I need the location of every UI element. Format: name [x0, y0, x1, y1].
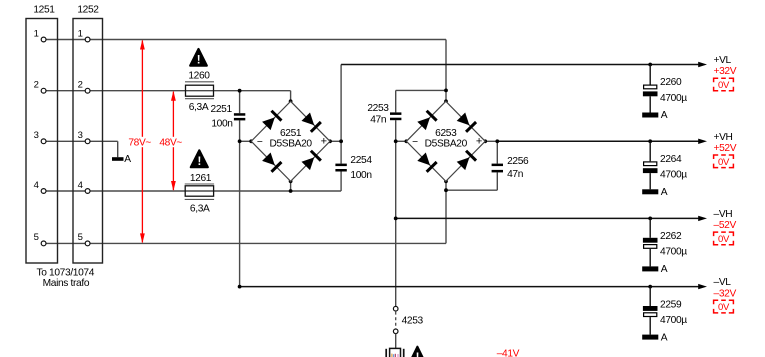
standby voltage 0V box at &#8211;VL: [714, 300, 734, 313]
svg-text:+VH: +VH: [714, 132, 733, 143]
svg-text:6,3A: 6,3A: [189, 102, 209, 113]
wire +VH rail: [497, 140, 699, 142]
svg-text:2264: 2264: [660, 154, 682, 165]
svg-text:2: 2: [78, 80, 83, 91]
78V~ measure arrow shaft: [141, 41, 143, 243]
wire bridge 6251 bottom vertex stem to pin4 row: [290, 181, 292, 191]
capacitor 2253: [390, 112, 401, 115]
bridge 6253 diode bottom-right: [457, 157, 470, 170]
svg-text:4700µ: 4700µ: [660, 93, 687, 104]
junction bridge 6253 left vertex: [405, 139, 409, 143]
connector block below 4253 (clipped at image bottom): [390, 348, 401, 357]
connector 1251 pin 1 circle: [41, 37, 46, 42]
svg-text:A: A: [661, 264, 668, 275]
wire vertical x446 pin5 up to bridge 6253 bottom: [445, 181, 447, 243]
junction cap2262/-VH rail: [648, 217, 652, 221]
svg-text:0V: 0V: [718, 234, 730, 245]
svg-text:A: A: [661, 110, 668, 121]
wire pin2 row through fuse 1260: [44, 90, 291, 92]
svg-text:6253: 6253: [435, 128, 457, 139]
connector 1252 box: [73, 19, 103, 264]
48V~ measure arrow shaft: [172, 92, 174, 190]
wire cap 2254 top lead: [340, 141, 342, 163]
wire -VL rail: [240, 286, 699, 288]
connector 1252 pin 1 circle: [85, 37, 90, 42]
junction cap2251/pin2: [238, 89, 242, 93]
svg-text:+: +: [321, 136, 327, 148]
svg-text:2254: 2254: [350, 155, 372, 166]
output arrow -VL: [698, 284, 707, 289]
wire bridge 6253 minus vertex link: [396, 140, 407, 142]
svg-text:5: 5: [34, 232, 39, 243]
wire cap 2253 top lead: [395, 90, 397, 112]
connector 1252 pin 2 circle: [85, 88, 90, 93]
svg-text:2260: 2260: [660, 77, 682, 88]
svg-text:2256: 2256: [507, 156, 529, 167]
svg-text:6251: 6251: [280, 128, 302, 139]
bridge 6253 diode top-left: [417, 117, 430, 130]
svg-text:–VL: –VL: [714, 277, 732, 288]
bridge 6251 diode bottom-left: [262, 153, 275, 166]
wire pin3 row to ground stem: [44, 140, 118, 142]
svg-text:1: 1: [34, 28, 39, 39]
svg-text:+52V: +52V: [714, 143, 737, 154]
output arrow +VH: [698, 139, 707, 144]
bridge 6251 diode top-left: [262, 117, 275, 130]
svg-text:+: +: [476, 136, 482, 148]
wire pin5 row to bridge 6253 bottom drop: [44, 242, 446, 244]
wire bridge 6251 minus vertex to x240 node: [240, 140, 252, 142]
standby voltage 0V box at +VH: [714, 155, 734, 168]
svg-text:5: 5: [78, 232, 83, 243]
78V~ label: [127, 137, 153, 147]
junction bridge 6251 right vertex: [328, 139, 332, 143]
svg-text:2251: 2251: [211, 104, 233, 115]
wire bridge 6251 plus vertex to x341 node: [330, 140, 341, 142]
svg-text:−: −: [412, 137, 418, 148]
svg-text:1251: 1251: [33, 5, 55, 16]
warning triangle above fuse 1261: [191, 150, 208, 167]
svg-text:4: 4: [34, 180, 39, 191]
wire pin2 corner down to bridge 6251 top: [290, 91, 292, 102]
svg-text:!: !: [197, 54, 200, 66]
bridge rectifier 6251 outline: [251, 101, 330, 181]
svg-text:78V~: 78V~: [128, 138, 151, 149]
wire cap 2256 bottom link to bridge 6253 bottom stem: [446, 189, 497, 191]
junction x341/+V node: [339, 139, 343, 143]
svg-text:+VL: +VL: [714, 55, 732, 66]
78V~ arrow head up: [140, 40, 145, 50]
junction cap2256 link/bridge stem: [444, 188, 448, 192]
svg-text:3: 3: [78, 130, 83, 141]
wire cap 2251 bottom lead down to -VL node: [239, 120, 241, 286]
wire cap 2253 bottom lead: [395, 120, 397, 141]
connector 1251 pin 5 circle: [41, 241, 46, 246]
connector 1251 pin 3 circle: [41, 139, 46, 144]
plug 4253 dashed link: [395, 312, 397, 329]
warning triangle at bottom (clipped): [409, 347, 425, 357]
wire plug 4253 down lead: [395, 334, 397, 349]
junction cap2259/-VL rail: [648, 285, 652, 289]
svg-text:2: 2: [34, 80, 39, 91]
wire pin3 ground stem vertical: [117, 141, 119, 157]
wire bridge 6253 plus vertex to cap 2256 node: [485, 140, 497, 142]
svg-text:A: A: [124, 154, 131, 165]
ground bar A below 2260: [642, 113, 658, 118]
wire cap 2254 bottom lead to pin4 row: [340, 172, 342, 192]
standby voltage 0V box at +VL: [714, 78, 734, 91]
svg-text:D5SBA20: D5SBA20: [425, 139, 468, 150]
bridge 6253 diode top-right: [457, 113, 470, 126]
ground bar A below 2262: [642, 266, 658, 271]
svg-text:47n: 47n: [370, 114, 386, 125]
svg-text:1: 1: [78, 28, 83, 39]
svg-text:1260: 1260: [188, 70, 210, 81]
connector 1251 pin 2 circle: [41, 88, 46, 93]
svg-text:2259: 2259: [660, 299, 682, 310]
junction bridge 6253 top vertex: [444, 99, 448, 103]
capacitor 2251: [234, 113, 245, 116]
svg-text:6,3A: 6,3A: [190, 203, 210, 214]
plug 4253 lower pin circle: [393, 329, 398, 334]
connector 1251 pin 4 circle: [41, 189, 46, 194]
junction bridge 6251 top vertex: [289, 99, 293, 103]
electrolytic capacitor 2264: [649, 141, 651, 161]
48V~ label: [158, 137, 184, 147]
svg-text:D5SBA20: D5SBA20: [269, 139, 312, 150]
electrolytic capacitor 2262: [649, 218, 651, 237]
connector 1251 box: [26, 19, 58, 264]
connector 1252 pin 5 circle: [85, 241, 90, 246]
ground bar A (pin3): [112, 157, 124, 161]
svg-text:A: A: [661, 187, 668, 198]
svg-text:100n: 100n: [350, 170, 371, 181]
bridge 6251 diode bottom-right: [302, 157, 315, 170]
wire vertical x446 pin1 down to bridge 6253 top: [445, 40, 447, 102]
48V~ arrow head down: [171, 181, 176, 191]
svg-text:Mains trafo: Mains trafo: [43, 278, 90, 289]
svg-text:0V: 0V: [718, 157, 730, 168]
wire cap 2256 bottom lead: [496, 172, 498, 190]
junction bridge 6253 right vertex: [483, 139, 487, 143]
wire +VL rail: [341, 64, 699, 66]
svg-text:3: 3: [34, 130, 39, 141]
junction x240/-VL rail: [238, 285, 242, 289]
junction x396/-VH rail: [394, 217, 398, 221]
svg-text:To 1073/1074: To 1073/1074: [37, 267, 95, 278]
svg-text:−: −: [257, 137, 263, 148]
bridge 6253 diode bottom-left: [417, 153, 430, 166]
junction cap2253 link/pin1 drop: [444, 89, 448, 93]
wire x341 vertical up to +VL rail: [340, 65, 342, 142]
wire pin1 row (78V winding top) to bridge 6253 drop: [44, 39, 446, 41]
bridge 6251 diode top-right: [302, 113, 315, 126]
wire x396 vertical minus node down to plug 4253: [395, 141, 397, 306]
svg-text:1261: 1261: [190, 173, 212, 184]
connector 1252 pin 4 circle: [85, 189, 90, 194]
svg-text:–32V: –32V: [714, 288, 737, 299]
78V~ arrow head down: [140, 233, 145, 243]
junction cap2256/+VH rail: [495, 139, 499, 143]
svg-text:100n: 100n: [211, 119, 232, 130]
electrolytic capacitor 2259: [649, 287, 651, 306]
wire cap 2251 top lead: [239, 91, 241, 114]
fuse 1260: [185, 81, 214, 83]
junction cap2260/+VL rail: [648, 63, 652, 67]
svg-text:0V: 0V: [718, 302, 730, 313]
svg-text:–52V: –52V: [714, 220, 737, 231]
wire cap 2253 top link to pin1 drop: [396, 89, 446, 91]
junction bridge 6251 stem/pin4 row: [289, 189, 293, 193]
wire pin4 row through fuse 1261 to cap 2254 bottom: [44, 190, 342, 192]
svg-text:–41V: –41V: [497, 348, 520, 357]
output arrow +VL: [698, 62, 707, 67]
svg-text:4700µ: 4700µ: [660, 315, 687, 326]
junction x396/minus node: [394, 139, 398, 143]
junction cap2251/bridge6251 minus: [238, 139, 242, 143]
warning triangle above fuse 1260: [190, 49, 207, 66]
svg-text:1252: 1252: [77, 5, 99, 16]
svg-text:!: !: [198, 156, 201, 168]
svg-text:0V: 0V: [718, 80, 730, 91]
wire -VH rail: [396, 217, 699, 219]
svg-text:2262: 2262: [660, 231, 682, 242]
ground bar A below 2259: [642, 335, 658, 340]
svg-text:–VH: –VH: [714, 209, 733, 220]
capacitor 2254: [335, 164, 346, 167]
svg-text:4700µ: 4700µ: [660, 170, 687, 181]
svg-text:47n: 47n: [507, 169, 523, 180]
standby voltage 0V box at &#8211;VH: [714, 232, 734, 245]
svg-text:!: !: [416, 352, 419, 357]
svg-text:A: A: [661, 332, 668, 343]
junction cap2264/+VH rail: [648, 139, 652, 143]
junction bridge 6253 bottom vertex: [444, 179, 448, 183]
ground bar A below 2264: [642, 189, 658, 194]
48V~ arrow head up: [171, 91, 176, 101]
output arrow -VH: [698, 216, 707, 221]
svg-text:4700µ: 4700µ: [660, 247, 687, 258]
svg-text:48V~: 48V~: [159, 138, 182, 149]
svg-text:4253: 4253: [402, 316, 424, 327]
electrolytic capacitor 2260: [649, 65, 651, 85]
svg-text:+32V: +32V: [714, 66, 737, 77]
capacitor 2256: [492, 164, 503, 167]
fuse 1261: [185, 183, 214, 185]
plug 4253 upper pin circle: [393, 306, 398, 311]
svg-text:4: 4: [78, 180, 83, 191]
junction bridge 6251 bottom vertex: [289, 179, 293, 183]
wire cap 2256 top lead: [496, 141, 498, 163]
junction bridge 6251 left vertex: [249, 139, 253, 143]
bridge rectifier 6253 outline: [406, 101, 485, 181]
svg-text:2253: 2253: [367, 103, 389, 114]
connector 1252 pin 3 circle: [85, 139, 90, 144]
